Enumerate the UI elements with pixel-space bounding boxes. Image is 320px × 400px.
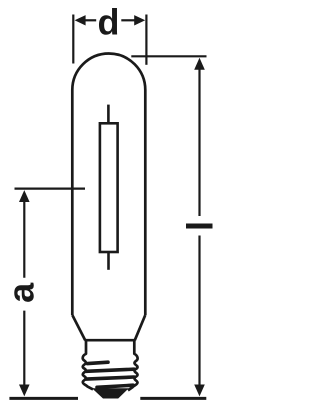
base contact tip (solid) xyxy=(92,388,129,398)
dimension l: upper line segment xyxy=(198,68,200,216)
dimension l: top extension line xyxy=(131,55,206,57)
dimension d: left extension line xyxy=(72,15,74,64)
dimension d: left arrow line xyxy=(82,19,96,21)
dimension d: left arrowhead xyxy=(75,15,86,25)
dimension d: right arrowhead xyxy=(134,15,145,25)
thread line 1 (top, partial) xyxy=(88,362,109,363)
dimension a: upper line segment xyxy=(23,200,25,278)
dimension a: bottom arrowhead xyxy=(19,385,30,397)
svg-text:a: a xyxy=(1,282,42,303)
svg-text:d: d xyxy=(98,1,120,42)
screw base cap top edge xyxy=(85,339,136,342)
thread line 2 xyxy=(86,369,134,371)
dimension a: top extension line xyxy=(15,188,86,190)
dimension a: lower line segment xyxy=(23,311,25,387)
arc tube bottom stem xyxy=(107,252,110,270)
dimension d: right extension line xyxy=(145,15,147,65)
inner arc tube xyxy=(100,123,118,252)
bulb neck taper left xyxy=(72,315,85,340)
thread line 4 (bottom, partial) xyxy=(97,385,133,387)
dimension a: top arrowhead xyxy=(19,190,30,202)
dimension l: bottom arrowhead xyxy=(194,385,205,397)
thread line 3 xyxy=(86,377,134,379)
lamp bulb outline (tubular glass envelope with domed top) xyxy=(72,53,145,315)
dimension l: top arrowhead xyxy=(194,58,205,70)
screw base left side with thread bumps xyxy=(83,340,93,389)
svg-text:l: l xyxy=(179,221,219,231)
arc tube top stem xyxy=(107,105,110,124)
bottom reference line left segment xyxy=(9,397,78,400)
bottom reference line right segment xyxy=(140,397,206,400)
dimension d: right arrow line xyxy=(121,19,137,21)
screw base right side with thread bumps xyxy=(128,340,138,390)
dimension l: lower line segment xyxy=(198,236,200,387)
bulb neck taper right xyxy=(135,315,146,340)
